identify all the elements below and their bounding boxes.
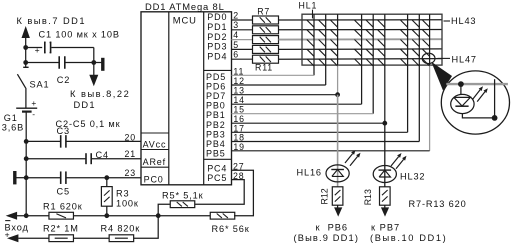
svg-text:R11: R11 [255,62,273,72]
svg-text:21: 21 [125,149,137,159]
pin label PD2 [207,32,227,42]
pin number 27 [233,161,245,171]
chassis common symbol left [15,171,26,184]
wire R2 to R4 [74,237,110,239]
wire pin2 to R7 [232,19,253,21]
junction dot R3 bottom [104,213,109,218]
pin number 20 [125,133,137,143]
svg-text:R1 620к: R1 620к [43,202,83,212]
svg-text:-: - [32,109,36,119]
LED HL16 [326,165,349,182]
wire C1 right to C2 node [93,48,95,63]
junction dot rail/C2 [23,60,28,65]
wire pin5 to R10 [232,48,253,50]
pin number 13 [233,86,245,96]
pin number 28 [233,171,245,181]
pin label PD0 [207,12,227,22]
pin label PB0 [206,101,226,111]
svg-text:ARef: ARef [143,157,166,167]
pin label PB5 [206,149,226,159]
resistor R1 [49,212,73,219]
pin number 14 [233,95,245,105]
pin label PB1 [206,110,226,120]
svg-text:C5: C5 [57,186,70,196]
svg-text:PB0: PB0 [206,101,226,111]
wire R5 to pin28 [195,180,245,205]
HL32 light arrows [391,153,407,169]
resistor R4 [109,235,133,242]
label input minus [5,220,10,222]
svg-text:PD5: PD5 [206,72,226,82]
pin label PD3 [207,42,227,52]
label С2-С5 0,1 мк [56,119,121,129]
label R3 100к [116,188,139,208]
pin number 12 [233,76,245,86]
label C1 value [39,30,120,40]
svg-text:HL1: HL1 [299,1,318,11]
input arrow minus [6,212,17,220]
pin number 17 [233,123,245,133]
inset wire cathode [462,114,494,118]
resistor R6* [210,212,235,219]
svg-text:R3: R3 [116,188,129,198]
capacitor C2 [59,56,65,69]
pin label PD5 [206,72,226,82]
svg-text:28: 28 [233,171,245,181]
label к PB6 [316,222,349,232]
capacitor C3 [61,135,66,148]
svg-text:PD0: PD0 [207,12,227,22]
pin number 11 [233,66,244,76]
svg-text:+: + [31,98,37,108]
wire row 2 [279,29,443,31]
svg-text:5: 5 [233,40,239,50]
resistor R8 [253,26,279,34]
label R7-R13 620 [409,199,467,209]
svg-text:HL47: HL47 [452,54,477,64]
svg-text:PB4: PB4 [206,139,226,149]
wire pin4 to R9 [232,39,253,41]
pin number 15 [233,105,245,115]
svg-text:SA1: SA1 [30,79,50,89]
junction dot node R4/R5/R6 [156,213,161,218]
svg-text:PD3: PD3 [207,42,227,52]
inset row wire [446,83,508,85]
svg-text:HL32: HL32 [400,171,425,181]
matrix column 8 wire [232,14,420,141]
resistor R11 [253,55,279,63]
label DD1 ATMega 8L [145,1,225,12]
capacitor C4 [86,153,91,164]
svg-text:C3: C3 [57,126,70,136]
svg-text:2: 2 [233,10,239,20]
pin number 19 [233,142,245,152]
matrix column 9 wire [232,14,430,151]
ground arrow to pins 8,22 DD1 [89,63,98,87]
wire node up to R5 [158,204,170,216]
svg-text:PB3: PB3 [206,129,226,139]
svg-text:PC5: PC5 [207,173,227,183]
pin number 5 [233,40,239,50]
label HL1 [299,1,318,19]
svg-text:HL43: HL43 [451,16,476,26]
pin number 21 [125,149,137,159]
wire row 5 [279,58,443,61]
callout wedge [431,62,452,91]
wire pin6 to R11 [232,58,253,60]
svg-text:К выв.7 DD1: К выв.7 DD1 [17,16,86,26]
junction dot C2 right node [91,60,96,65]
svg-text:AVcc: AVcc [143,139,167,149]
matrix LEDs HL1-HL47 diagonals [307,20,430,66]
pin label ARef [143,157,166,167]
matrix column 1 wire [232,14,315,75]
wire row 1 [279,19,443,21]
resistor R10 [253,45,279,53]
label R1 620к [43,202,83,212]
pin label PD7 [206,91,226,101]
svg-text:к PB6: к PB6 [316,222,349,232]
battery G1 [16,98,37,216]
svg-text:23: 23 [125,168,137,178]
inset junction dot cathode [492,115,498,121]
resistor R7 [253,16,279,24]
pin label PB3 [206,129,226,139]
inset junction dot anode [458,81,464,87]
LED matrix outline frame [302,14,442,65]
matrix column 4 wire [232,14,362,104]
wire pin23 PC0 [26,177,141,179]
label R4 820к [101,223,141,233]
svg-text:G1: G1 [4,113,18,123]
inset column wire [494,79,496,118]
chassis common symbol top [94,58,103,71]
svg-text:C4: C4 [96,150,109,160]
svg-text:к PB7: к PB7 [371,222,400,232]
pin label PD1 [207,22,227,32]
pin number 23 [125,168,137,178]
svg-text:PD4: PD4 [207,51,227,61]
svg-text:R5* 5,1к: R5* 5,1к [162,190,204,200]
svg-text:MCU: MCU [173,14,197,25]
svg-text:PC0: PC0 [144,174,164,184]
inset wire anode [460,84,462,95]
junction dot rail/C4 [24,156,29,161]
resistor R9 [253,36,279,44]
label C2 [57,75,70,85]
svg-text:3,6В: 3,6В [2,123,24,133]
junction dot col3 pin13 HL16 [335,92,340,97]
matrix column 2 wire [232,14,326,85]
svg-text:4: 4 [233,30,239,40]
svg-text:DD1: DD1 [74,100,96,110]
pin label PB4 [206,139,226,149]
svg-text:R2* 1М: R2* 1М [43,223,79,233]
matrix column 5 wire [232,14,374,114]
junction dot rail bottom [24,213,29,218]
label HL32 [400,171,425,181]
label MCU [173,14,197,25]
input arrow plus [7,234,18,242]
svg-text:R7-R13 620: R7-R13 620 [409,199,467,209]
label R13 [363,189,373,205]
wire R6 to pin27 [232,170,254,216]
label к PB7 [371,222,400,232]
wire C2 branch [26,62,94,64]
inset LED symbol [451,94,474,113]
inset light arrows [472,86,487,101]
svg-text:PD1: PD1 [207,22,227,32]
junction dot rail/C5 [24,175,29,180]
arrow to PB7 [381,205,389,216]
resistor R13 [380,187,391,205]
pin number 16 [233,114,245,124]
resistor R3 [101,178,112,216]
pin label PC0 [144,174,164,184]
svg-text:R7: R7 [257,7,270,17]
wire pin3 to R8 [232,29,253,31]
svg-text:PB5: PB5 [206,149,226,159]
matrix column 7 wire [232,14,408,132]
svg-text:PD2: PD2 [207,32,227,42]
svg-text:6: 6 [233,50,239,60]
svg-text:PB1: PB1 [206,110,226,120]
pin label PD4 [207,51,227,61]
label Выв.9 DD1 [294,233,360,243]
svg-text:20: 20 [125,133,137,143]
resistor R5* [170,201,195,208]
svg-text:R4 820к: R4 820к [101,223,141,233]
label C5 [57,186,70,196]
svg-text:(Выв.9 DD1): (Выв.9 DD1) [294,233,360,243]
label G1 3,6В [2,113,24,133]
label R7 [257,7,270,17]
svg-text:PC4: PC4 [207,164,227,174]
svg-text:R13: R13 [363,189,373,205]
pin number 4 [233,30,239,40]
label HL16 [297,167,322,177]
wire row 3 [279,38,443,40]
wire pin21 ARef [26,158,141,160]
svg-text:HL16: HL16 [297,167,322,177]
svg-text:PB2: PB2 [206,120,226,130]
magnifier circle [441,71,509,134]
wire pin20 AVcc [26,140,141,142]
label SA1 [30,79,50,89]
label HL43 [444,16,477,26]
label R11 [255,62,273,72]
label К выв.8,22 DD1 [70,89,130,110]
wire R4 right up to node [134,216,159,239]
pin label PD6 [206,81,226,91]
label C4 [96,150,109,160]
svg-text:PD6: PD6 [206,81,226,91]
label HL47 [438,54,477,64]
svg-text:R12: R12 [319,188,329,204]
label R6* 56к [212,224,250,234]
pin label PC4 [207,164,227,174]
svg-text:C2: C2 [57,75,70,85]
svg-text:DD1 ATMega 8L: DD1 ATMega 8L [145,1,225,12]
callout circle around HL47 [422,53,435,63]
svg-text:К выв.8,22: К выв.8,22 [70,89,130,99]
junction dot rail/C1 [23,45,28,50]
label Вход [5,222,29,232]
matrix column 6 wire [232,14,385,123]
label C3 [57,126,70,136]
arrow to PB6 [334,205,342,216]
wire HL32 drop [384,123,386,187]
wire HL16 drop [337,95,339,187]
svg-text:3: 3 [233,20,239,30]
svg-text:R6* 56к: R6* 56к [212,224,250,234]
wire row 4 [279,48,443,51]
svg-text:(Выв.10 DD1): (Выв.10 DD1) [370,233,447,243]
pin number 3 [233,20,239,30]
svg-text:C1 100 мк х 10В: C1 100 мк х 10В [39,30,120,40]
svg-text:100к: 100к [116,199,139,209]
pin number 6 [233,50,239,60]
IC DD1 ATMega 8L box [141,12,232,185]
label input plus [5,230,11,240]
pin number 2 [233,10,239,20]
resistor R2* [49,235,73,242]
pin label AVcc [143,139,167,149]
junction dot R3 top [104,175,109,180]
label R5* 5,1к [162,190,204,200]
pin number 18 [233,133,245,143]
svg-text:PD7: PD7 [206,91,226,101]
label R2* 1М [43,223,79,233]
wire C1 top branch [26,47,94,49]
matrix column 3 wire [232,14,338,95]
wire input minus rail [17,215,49,217]
junction dot rail/C3 [24,139,29,144]
pin label PB2 [206,120,226,130]
wire input plus to R2 [18,237,49,239]
switch SA1 [17,67,28,108]
junction dot col6 pin16 HL32 [382,121,387,126]
power arrow to pin 7 DD1 (Vcc) [22,26,30,67]
capacitor C5 [61,171,66,184]
label К выв.7 DD1 [17,16,86,26]
label R12 [319,188,329,204]
label Выв.10 DD1 [370,233,447,243]
LED HL32 [373,166,396,183]
wire R1 right rail [74,215,212,217]
HL16 light arrows [345,150,361,166]
capacitor C1 (electrolytic) [35,42,52,55]
pin label PC5 [207,173,227,183]
svg-text:+: + [35,45,41,55]
resistor R12 [332,187,343,205]
